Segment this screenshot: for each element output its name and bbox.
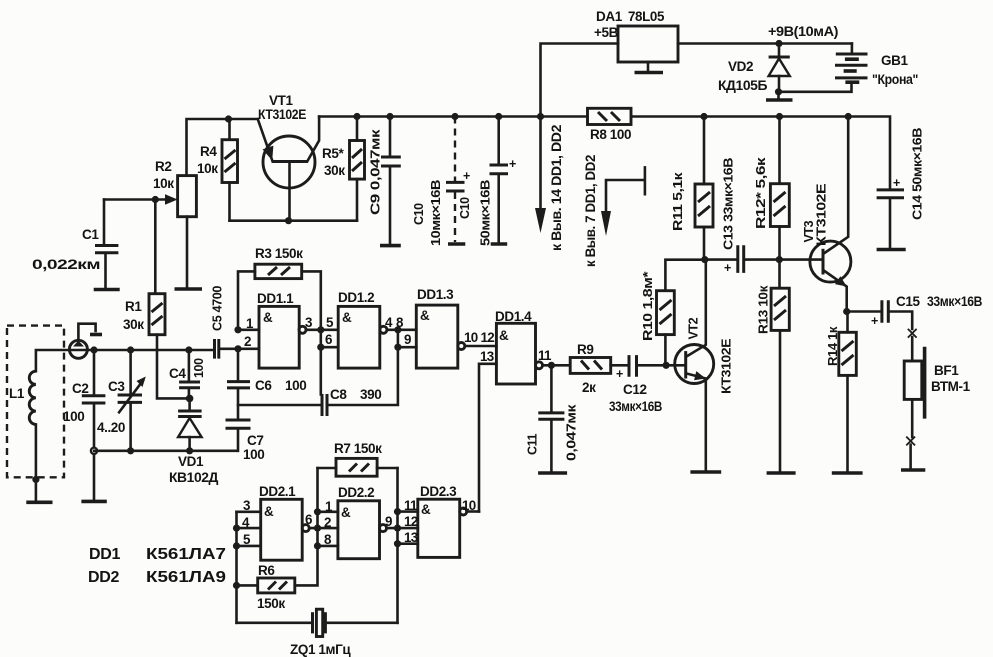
svg-text:К561ЛА7: К561ЛА7 [146, 546, 226, 563]
svg-text:2: 2 [324, 515, 331, 530]
svg-text:L1: L1 [9, 386, 25, 401]
resistor R7 [336, 458, 377, 476]
wire C6/C7 node to C8 [238, 404, 321, 407]
diode VD2 [769, 44, 790, 92]
resistor R8 [588, 108, 632, 124]
svg-text:R13 10к: R13 10к [757, 285, 771, 334]
node R11 top [700, 113, 707, 120]
resistor R10 [665, 260, 704, 291]
svg-text:11: 11 [538, 348, 552, 363]
svg-text:К561ЛА9: К561ЛА9 [146, 569, 226, 586]
node varicap [186, 395, 194, 403]
svg-text:3: 3 [243, 498, 250, 513]
svg-text:9: 9 [385, 514, 392, 529]
wire out3 to pin6/C8 [319, 330, 322, 395]
svg-text:C9 0,047мк: C9 0,047мк [369, 128, 383, 215]
svg-text:100: 100 [63, 409, 84, 424]
node +5V feed [537, 113, 544, 120]
transistor VT2 [666, 260, 714, 471]
svg-text:C15: C15 [896, 294, 920, 309]
capacitor C9 [389, 117, 392, 157]
capacitor C7 [226, 420, 251, 428]
svg-text:DD1.3: DD1.3 [417, 287, 454, 302]
svg-text:R12* 5,6к: R12* 5,6к [754, 156, 768, 229]
break mark bottom [911, 399, 914, 437]
node R5 top [353, 113, 360, 120]
node VD1 bottom [186, 447, 193, 454]
svg-text:&: & [420, 308, 430, 323]
svg-text:10к: 10к [153, 176, 174, 191]
capacitor C5 [215, 339, 219, 359]
svg-text:ZQ1 1мГц: ZQ1 1мГц [290, 642, 351, 657]
pin 5 [237, 545, 261, 548]
capacitor C4 [188, 350, 191, 381]
resistor R13 [778, 260, 781, 289]
pin 1 [318, 510, 338, 513]
svg-text:C7: C7 [247, 433, 263, 448]
potentiometer R2 [178, 176, 197, 217]
svg-text:C8: C8 [330, 387, 347, 402]
ground VT2 emitter [690, 470, 721, 474]
node C9 top [386, 113, 393, 120]
svg-text:DD2: DD2 [88, 569, 120, 586]
node VT3 emitter [843, 308, 850, 315]
transistor VT1 [258, 117, 319, 221]
svg-text:R7 150к: R7 150к [334, 441, 382, 456]
svg-text:C4: C4 [169, 366, 186, 381]
regulator DA1 [618, 26, 678, 62]
pin 11 [398, 510, 418, 513]
svg-text:к Выв. 7 DD1, DD2: к Выв. 7 DD1, DD2 [583, 155, 598, 267]
varicap VD1 [178, 398, 202, 450]
pin 4 [237, 527, 261, 530]
svg-text:&: & [341, 505, 351, 520]
wire +9V top [541, 44, 619, 117]
svg-text:КД105Б: КД105Б [718, 78, 768, 93]
left input bus [235, 512, 238, 623]
resistor R6 [258, 578, 295, 593]
svg-text:C10: C10 [412, 203, 426, 225]
svg-text:+9В(10мА): +9В(10мА) [768, 24, 838, 39]
node VT3 collector rail [845, 113, 852, 120]
svg-text:11: 11 [404, 498, 418, 513]
resistor R9 [570, 358, 611, 374]
svg-text:VD1: VD1 [178, 454, 204, 469]
svg-text:C12: C12 [623, 382, 647, 397]
wire pin2 line [220, 347, 259, 350]
svg-text:DA1: DA1 [596, 9, 623, 24]
svg-text:4..20: 4..20 [97, 420, 125, 435]
capacitor C12 [611, 364, 628, 367]
svg-text:C10: C10 [458, 197, 472, 219]
ground L1 [26, 500, 52, 504]
svg-text:КТ3102Е: КТ3102Е [258, 107, 306, 122]
terminal ring C2 bottom [91, 448, 97, 454]
svg-text:150к: 150к [257, 596, 285, 611]
node C2 top [90, 346, 97, 353]
svg-text:&: & [499, 328, 509, 343]
gate DD1.3 [416, 305, 458, 368]
svg-text:DD1.1: DD1.1 [257, 291, 294, 306]
svg-text:DD2.3: DD2.3 [420, 484, 457, 499]
svg-text:&: & [263, 310, 273, 325]
wire L1 bottom [35, 424, 38, 500]
svg-text:50мк×16В: 50мк×16В [479, 180, 493, 246]
svg-text:VT2: VT2 [687, 317, 701, 339]
inductor L1 [29, 371, 36, 424]
svg-text:R11 5,1к: R11 5,1к [671, 172, 685, 231]
battery GB1 [835, 44, 868, 83]
svg-text:КВ102Д: КВ102Д [169, 470, 219, 485]
svg-text:100: 100 [285, 378, 306, 393]
DA1 ground pin [647, 62, 650, 71]
svg-text:КТ3102Е: КТ3102Е [720, 339, 734, 394]
svg-text:3: 3 [305, 315, 312, 330]
svg-text:10мк×16В: 10мк×16В [429, 180, 443, 246]
svg-text:&: & [264, 504, 274, 519]
svg-text:C11: C11 [526, 434, 540, 455]
wire rail right [319, 115, 587, 118]
resistor R1 [154, 200, 157, 294]
gate DD2.2 [338, 501, 380, 559]
svg-text:C13 33мк×16В: C13 33мк×16В [722, 158, 736, 250]
pin 13 [398, 542, 418, 545]
svg-text:R3 150к: R3 150к [255, 246, 303, 261]
resistor R14 [846, 312, 849, 333]
wire DA1 out to +9V node [678, 42, 852, 45]
pin 6 [321, 346, 338, 349]
output 11 bubble [536, 362, 543, 369]
svg-text:VD2: VD2 [728, 59, 753, 74]
resistor R11 [703, 117, 706, 185]
svg-text:33мк×16В: 33мк×16В [927, 294, 983, 309]
svg-text:R9: R9 [577, 342, 593, 357]
svg-text:к Выв. 14 DD1, DD2: к Выв. 14 DD1, DD2 [549, 125, 564, 251]
R2 wiper arrow [104, 198, 168, 201]
wire VT1 bottom rail [230, 219, 358, 222]
wire out4 to pin9/C8 [328, 330, 398, 405]
capacitor C8 [322, 394, 327, 416]
right bus R7/ZQ1 [396, 468, 399, 623]
svg-text:R14 1к: R14 1к [826, 326, 840, 366]
capacitor C10 (50мк option) [497, 117, 500, 165]
node C3 bottom [127, 447, 134, 454]
main tuning wire [36, 350, 214, 371]
svg-text:+: + [616, 367, 623, 381]
output 9 bubble [380, 525, 387, 532]
svg-text:6: 6 [305, 512, 312, 527]
pin 13 wire [479, 364, 496, 512]
arrow to pin 7 supply [644, 167, 647, 194]
svg-text:VT1: VT1 [269, 93, 293, 108]
svg-text:R4: R4 [200, 144, 217, 159]
svg-text:+: + [871, 314, 878, 328]
svg-text:+: + [463, 169, 470, 183]
output 10 bubble [460, 508, 467, 515]
node C10 top (50mk) [495, 113, 502, 120]
svg-text:R6: R6 [258, 563, 275, 578]
svg-text:C3: C3 [108, 379, 125, 394]
svg-text:0,022км: 0,022км [32, 257, 101, 272]
node R12 top [776, 113, 783, 120]
svg-text:DD1.2: DD1.2 [338, 290, 374, 305]
wire bottom tank [94, 449, 237, 452]
svg-text:0,047мк: 0,047мк [565, 404, 579, 461]
svg-text:ВТМ-1: ВТМ-1 [931, 379, 971, 394]
wire down to C6 [237, 349, 240, 381]
svg-text:&: & [342, 310, 352, 325]
gate DD2.1 [261, 499, 303, 560]
svg-text:9: 9 [404, 332, 411, 347]
pin 8 [318, 545, 338, 548]
break mark top [909, 330, 917, 338]
svg-text:13: 13 [480, 349, 494, 364]
svg-text:+: + [509, 157, 516, 171]
capacitor C2 [93, 350, 96, 395]
svg-text:78L05: 78L05 [628, 9, 665, 24]
node +9V [775, 40, 782, 47]
capacitor C6 [227, 382, 250, 388]
wire R3 left [238, 271, 255, 330]
resistor R12 [778, 117, 781, 184]
gate DD2.3 [418, 499, 460, 557]
svg-text:C2: C2 [72, 381, 88, 396]
output 4 bubble [380, 326, 387, 333]
svg-text:R1: R1 [125, 299, 142, 314]
svg-text:DD2.2: DD2.2 [338, 485, 374, 500]
svg-text:10: 10 [462, 498, 476, 513]
svg-text:R5*: R5* [322, 146, 344, 161]
svg-text:DD2.1: DD2.1 [259, 484, 296, 499]
svg-text:КТ3102Е: КТ3102Е [815, 184, 829, 246]
svg-text:DD1: DD1 [89, 546, 121, 563]
svg-text:2к: 2к [582, 380, 596, 395]
capacitor C15 [847, 310, 881, 313]
svg-text:C1: C1 [82, 227, 99, 242]
wire R3 right [302, 271, 321, 330]
trimmer C3 [129, 350, 132, 394]
node C4 top [185, 346, 192, 353]
svg-text:390: 390 [360, 387, 381, 402]
node R12/R13 [776, 256, 783, 263]
pin 9 [398, 346, 416, 349]
antenna dashed box [7, 326, 64, 478]
svg-text:GB1: GB1 [881, 53, 908, 68]
wire to VT3 base [779, 258, 821, 261]
svg-text:"Крона": "Крона" [872, 72, 918, 87]
svg-text:33мк×16В: 33мк×16В [609, 399, 663, 414]
capacitor C11 [550, 365, 553, 412]
svg-text:C5 4700: C5 4700 [211, 286, 225, 331]
svg-text:+: + [893, 176, 900, 190]
svg-text:DD1.4: DD1.4 [495, 309, 532, 324]
node collector VT2 [701, 256, 708, 263]
svg-text:BF1: BF1 [934, 363, 959, 378]
gate DD1.4 [496, 323, 535, 384]
svg-text:6: 6 [325, 332, 332, 347]
capacitor C1 [103, 200, 106, 245]
antenna jack X1 [69, 324, 102, 359]
svg-text:C6: C6 [255, 378, 272, 393]
wire battery minus [779, 83, 852, 92]
gate DD1.2 [338, 306, 380, 368]
node R1 top [152, 196, 159, 203]
wire R1 to varicap node [157, 335, 190, 399]
resistor R3 [255, 264, 302, 278]
svg-text:R10 1,8м*: R10 1,8м* [641, 271, 655, 341]
output 10 bubble [458, 343, 465, 350]
pin 3 [237, 510, 261, 513]
svg-text:C14 50мк×16В: C14 50мк×16В [911, 128, 925, 220]
piezo BF1 [904, 361, 922, 399]
R7 feedback bus left [316, 468, 319, 546]
svg-text:R2: R2 [155, 159, 171, 174]
node VT2 base [663, 362, 670, 369]
svg-text:+5В: +5В [594, 25, 619, 40]
R2 bottom ground [186, 217, 189, 288]
svg-text:30к: 30к [324, 163, 345, 178]
node C10 top (dashed) [451, 113, 458, 120]
wire C2 to ground [93, 454, 96, 500]
svg-text:10 12: 10 12 [464, 330, 494, 345]
svg-text:&: & [421, 502, 431, 517]
svg-text:+: + [724, 261, 731, 275]
svg-text:100: 100 [192, 358, 206, 378]
node VD2 bottom [775, 88, 782, 95]
transistor VT3 [810, 117, 851, 312]
capacitor C13 [705, 258, 737, 261]
svg-text:13: 13 [404, 530, 418, 545]
gate DD1.1 [259, 306, 299, 368]
capacitor C14 [877, 190, 904, 198]
output 3 bubble [299, 326, 306, 333]
svg-text:2: 2 [244, 334, 251, 349]
pin 1 [238, 328, 259, 331]
crystal ZQ1 [237, 621, 312, 624]
wire left rail [187, 119, 258, 176]
svg-text:R8 100: R8 100 [590, 127, 631, 142]
svg-text:100: 100 [243, 447, 264, 462]
svg-text:12: 12 [404, 514, 418, 529]
svg-text:30к: 30к [123, 317, 144, 332]
svg-text:10к: 10к [197, 161, 218, 176]
output 6 bubble [302, 525, 309, 532]
ground under VD2 [777, 92, 780, 99]
arrow to pin 14 supply [539, 117, 542, 211]
node C3 top [127, 346, 134, 353]
resistor R4 [228, 119, 231, 140]
capacitor C10 (dashed option) [454, 117, 456, 182]
resistor R5 [356, 117, 359, 141]
